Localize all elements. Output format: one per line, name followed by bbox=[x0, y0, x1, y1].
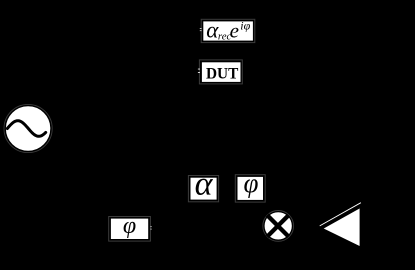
svg-text:DUT: DUT bbox=[206, 65, 238, 82]
svg-text:iφ: iφ bbox=[240, 19, 250, 33]
svg-text:α: α bbox=[195, 166, 214, 203]
svg-text:e: e bbox=[230, 19, 239, 43]
svg-text:φ: φ bbox=[123, 213, 136, 239]
svg-text:φ: φ bbox=[244, 168, 259, 198]
